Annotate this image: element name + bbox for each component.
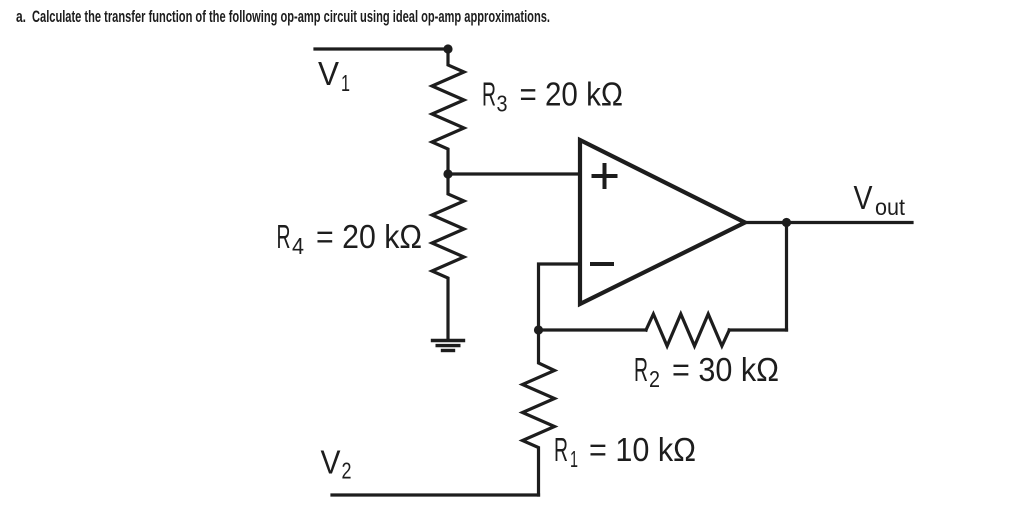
wire: feedback right segment — [729, 328, 786, 331]
label R1 = 10 kOhm — [554, 431, 696, 472]
svg-text:R: R — [482, 76, 496, 113]
ground — [433, 341, 464, 351]
resistor R3 (vertical zigzag) — [432, 49, 464, 174]
resistor R4 (vertical zigzag) — [432, 174, 464, 340]
svg-text:V: V — [854, 179, 873, 216]
resistor R1 (vertical zigzag) — [523, 330, 555, 495]
svg-text:out: out — [875, 194, 906, 220]
svg-text:1: 1 — [341, 70, 350, 96]
node C: feedback/R1 junction — [534, 325, 543, 334]
op-amp - input symbol — [592, 262, 612, 266]
wire: feedback left segment — [539, 328, 647, 331]
label V2 — [321, 444, 352, 484]
wire: V1 source top horizontal — [315, 47, 448, 50]
svg-text:V: V — [318, 55, 339, 92]
node B: R3/R4/+input junction — [443, 169, 452, 178]
svg-text:= 10 kΩ: = 10 kΩ — [589, 431, 696, 468]
resistor R2 (horizontal zigzag) — [646, 314, 729, 346]
svg-text:= 20 kΩ: = 20 kΩ — [520, 76, 624, 113]
label V1 — [318, 55, 350, 96]
wire: - input to feedback node — [539, 264, 581, 330]
wire: output node down to feedback — [785, 223, 788, 331]
svg-text:V: V — [321, 444, 341, 481]
svg-text:4: 4 — [292, 233, 304, 259]
svg-text:2: 2 — [342, 458, 352, 484]
svg-text:Calculate the transfer functio: Calculate the transfer function of the f… — [32, 7, 550, 26]
svg-text:R: R — [277, 218, 291, 255]
wire: V2 source bottom horizontal — [332, 493, 539, 496]
svg-text:1: 1 — [570, 446, 578, 472]
label R2 = 30 kOhm — [634, 351, 779, 392]
label R3 = 20 kOhm — [482, 76, 623, 117]
label R4 = 20 kOhm — [277, 218, 423, 259]
wire: node to op-amp + input — [448, 172, 578, 175]
node A: V1 to R3 junction — [443, 44, 452, 53]
label Vout — [854, 179, 906, 220]
svg-text:3: 3 — [497, 91, 508, 117]
op-amp U1 triangle — [580, 140, 745, 304]
svg-text:= 30 kΩ: = 30 kΩ — [672, 351, 779, 388]
svg-text:R: R — [554, 431, 568, 468]
svg-text:= 20 kΩ: = 20 kΩ — [316, 218, 422, 255]
svg-text:R: R — [634, 351, 648, 388]
op-amp + input symbol — [594, 165, 616, 187]
node D: output junction — [782, 218, 791, 227]
svg-text:a.: a. — [16, 7, 26, 26]
svg-text:2: 2 — [649, 366, 660, 392]
wire: op-amp output to Vout — [745, 221, 912, 224]
